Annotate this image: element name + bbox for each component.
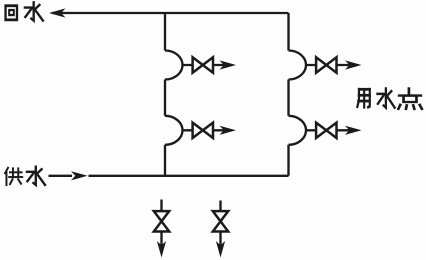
arrowhead branch left-lower [220, 126, 237, 135]
wire: right riser [287, 13, 289, 176]
arrowhead on return line pointing left [49, 8, 66, 17]
wire: branch left-lower [183, 129, 227, 131]
wire below drain valve D1 [160, 232, 162, 250]
valve V1 [193, 57, 213, 72]
valve V3 [316, 57, 336, 72]
arrowhead branch left-upper [220, 60, 237, 69]
wire: supply line continuation [89, 175, 289, 177]
branch takeoff arc (left riser, upper) [165, 51, 183, 80]
branch takeoff arc (right riser, upper) [289, 51, 307, 80]
arrowhead drain D2 pointing down [216, 241, 225, 258]
wire: branch right-upper [306, 64, 350, 66]
drain valve D2 [213, 211, 228, 231]
wire: branch right-lower [306, 129, 350, 131]
drain valve assembly 1: stub wire [160, 200, 162, 212]
drain valve D1 [154, 211, 169, 231]
label 供水 [5, 167, 45, 185]
arrowhead drain D1 pointing down [157, 241, 166, 258]
wire: branch left-upper [183, 64, 227, 66]
branch takeoff arc (left riser, lower) [165, 116, 183, 145]
wire: left riser [164, 13, 166, 176]
drain valve assembly 2: stub wire [219, 201, 221, 212]
arrowhead branch right-lower [345, 126, 362, 135]
label 用水点 [357, 88, 422, 108]
arrowhead branch right-upper [345, 60, 362, 69]
valve V4 [316, 123, 336, 138]
branch takeoff arc (right riser, lower) [289, 116, 307, 145]
label 回水 [6, 2, 43, 20]
arrowhead on supply line pointing right [71, 171, 88, 180]
wire: return line (top) [52, 12, 289, 14]
wire: supply line (bottom) [49, 175, 73, 177]
wire below drain valve D2 [219, 232, 221, 250]
valve V2 [193, 123, 213, 138]
